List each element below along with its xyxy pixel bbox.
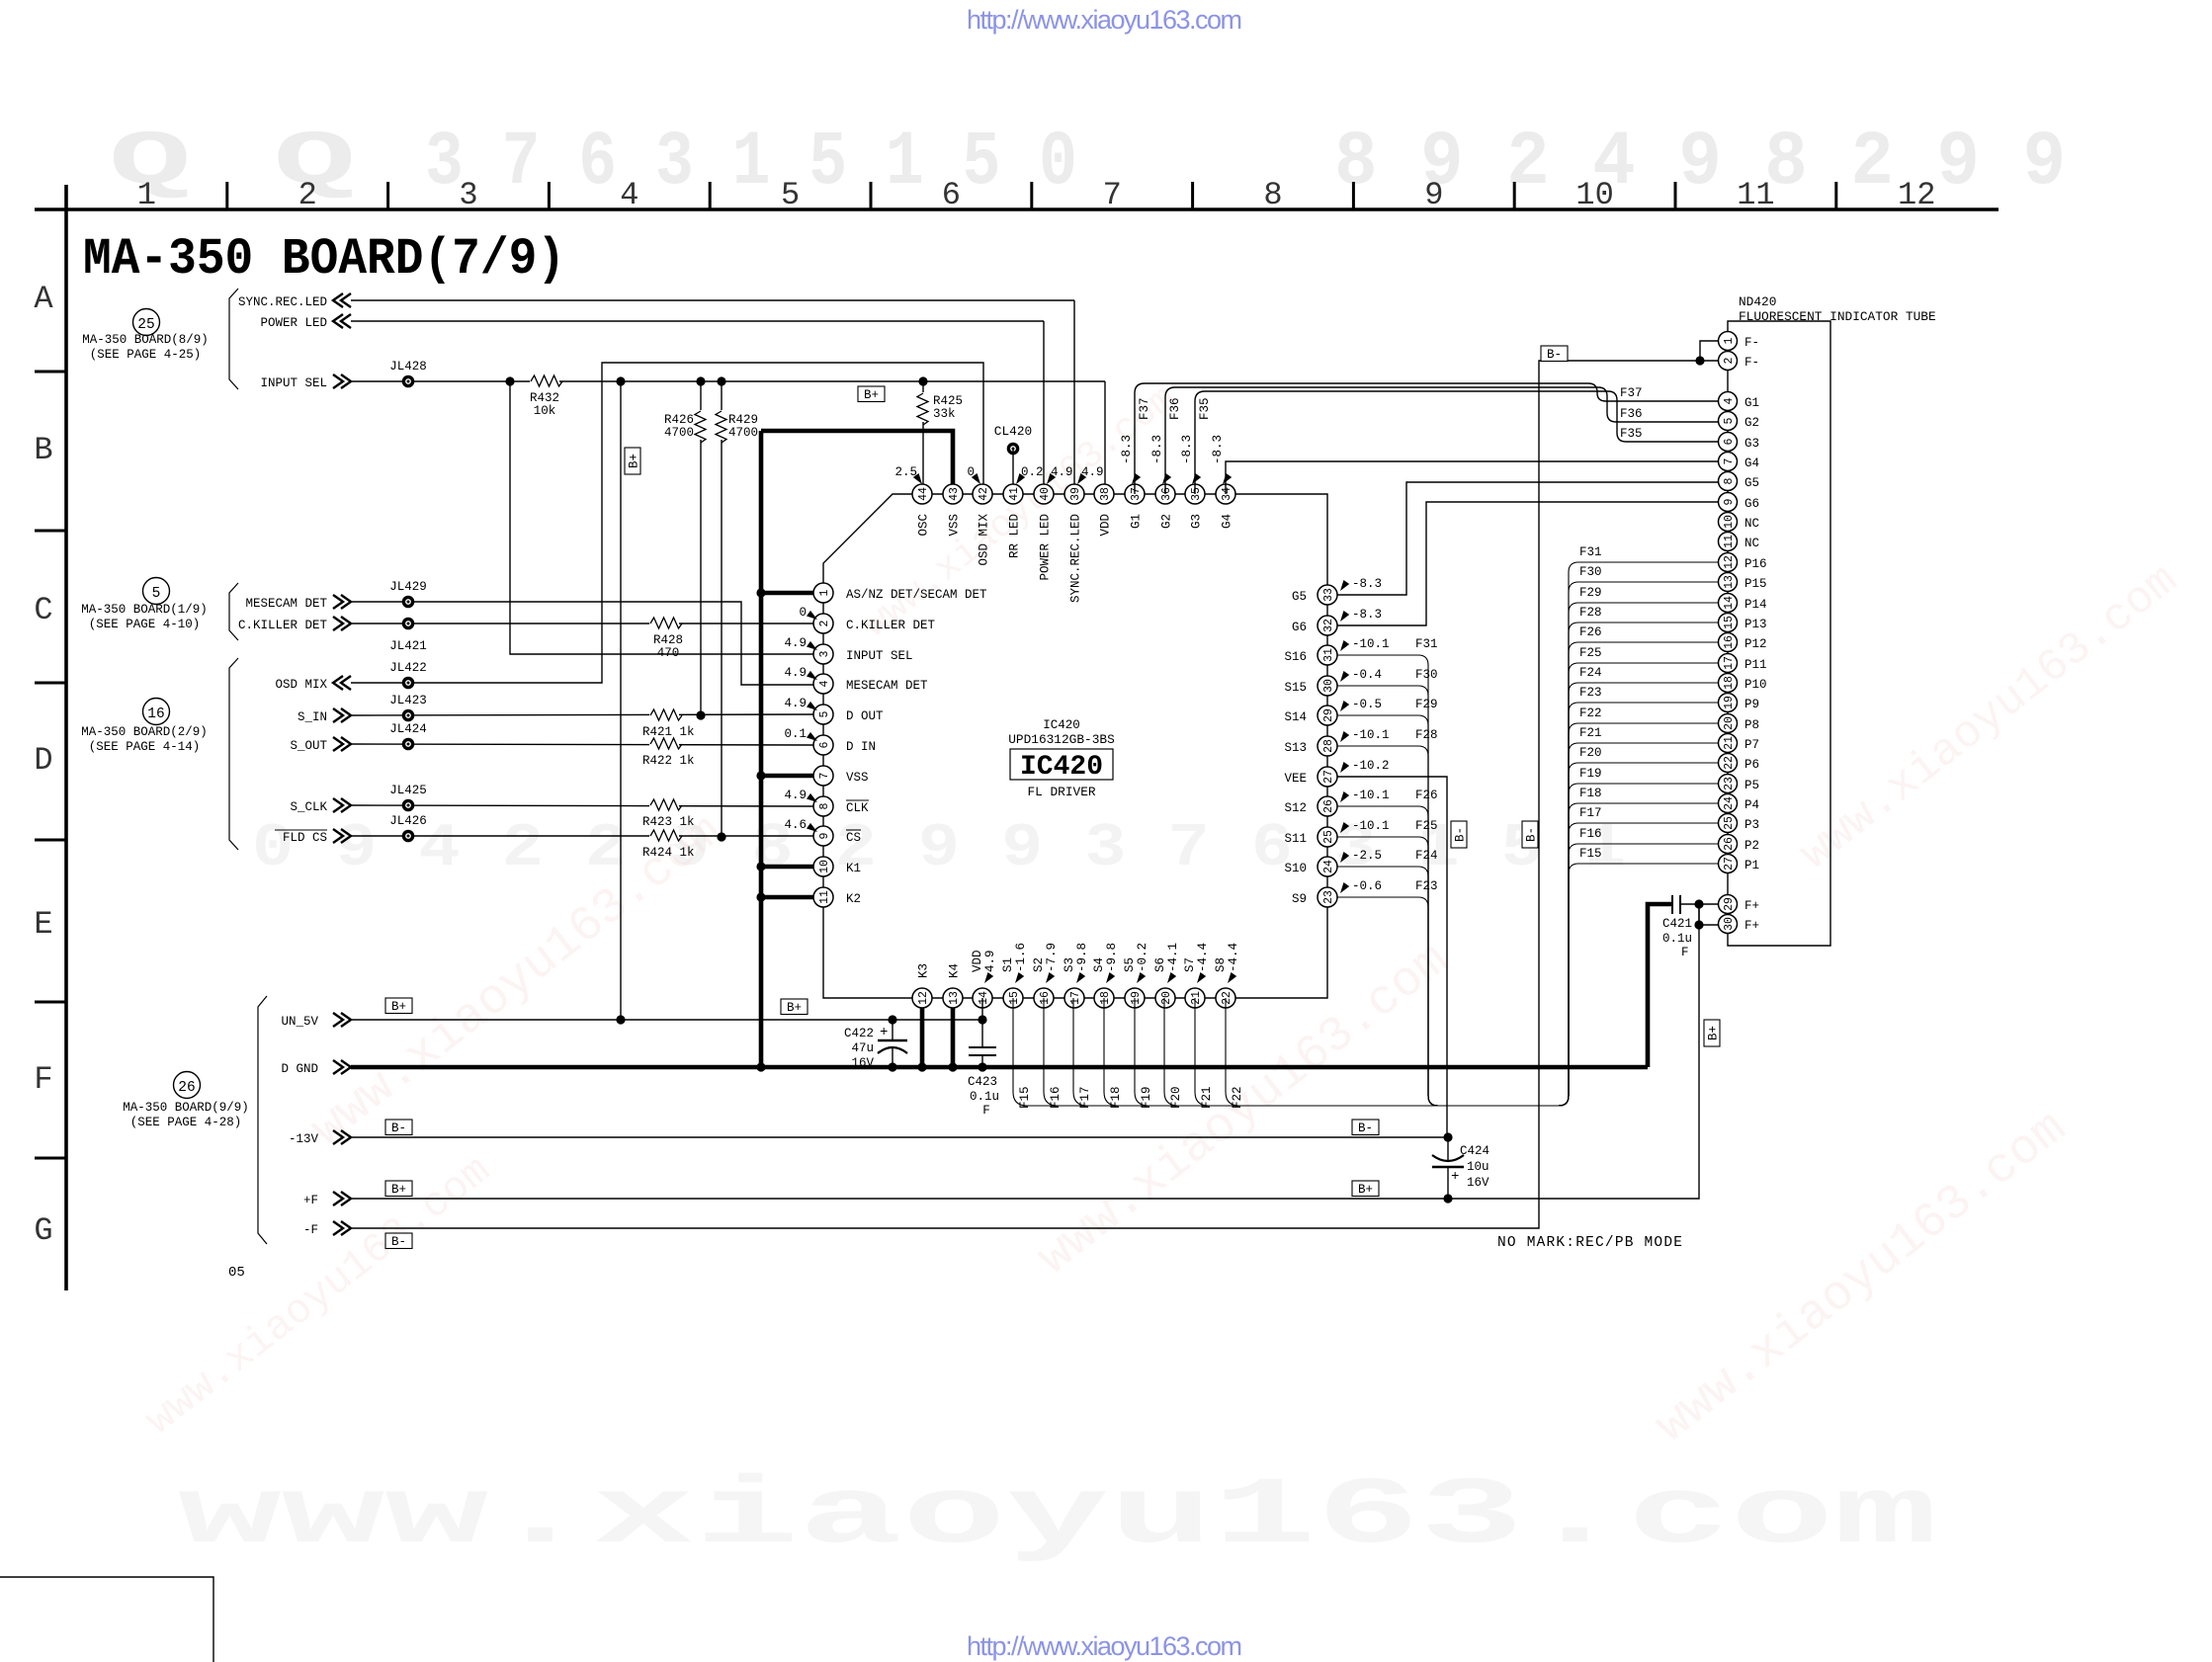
svg-text:S_OUT: S_OUT [290, 739, 327, 753]
svg-text:B+: B+ [391, 1000, 406, 1014]
svg-text:F25: F25 [1579, 646, 1602, 660]
svg-text:F15: F15 [1579, 847, 1602, 861]
svg-text:G2: G2 [1744, 416, 1759, 430]
node SYNC.REC.LED [238, 293, 351, 309]
svg-text:G4: G4 [1221, 514, 1234, 529]
svg-text:ND420: ND420 [1739, 294, 1776, 309]
bracket block 16 [229, 658, 238, 850]
wires F31-F23 from IC right pins to tube [1337, 562, 1719, 1106]
svg-text:S_CLK: S_CLK [290, 800, 327, 814]
svg-text:P16: P16 [1744, 557, 1767, 571]
svg-text:F35: F35 [1198, 397, 1212, 420]
svg-text:B-: B- [391, 1235, 406, 1249]
svg-text:S16: S16 [1284, 650, 1307, 664]
svg-text:18: 18 [1099, 991, 1112, 1005]
voltage 4.9 at pin 40 [1044, 465, 1072, 486]
junction F- node [1695, 356, 1704, 365]
svg-text:41: 41 [1008, 487, 1021, 501]
svg-text:C.KILLER DET: C.KILLER DET [238, 619, 328, 632]
svg-text:-10.1: -10.1 [1352, 728, 1390, 742]
svg-text:FLD CS: FLD CS [283, 831, 327, 845]
svg-text:(SEE PAGE 4-25): (SEE PAGE 4-25) [90, 348, 202, 362]
wire POWER LED [351, 320, 1044, 322]
svg-text:S9: S9 [1292, 892, 1307, 906]
svg-text:8: 8 [818, 802, 831, 809]
junction C423 bottom [978, 1062, 986, 1071]
svg-text:6: 6 [1723, 438, 1736, 445]
svg-text:22: 22 [1723, 756, 1736, 770]
svg-text:(SEE PAGE 4-28): (SEE PAGE 4-28) [130, 1116, 242, 1129]
voltage -8.3 at pin 35 [1180, 435, 1201, 486]
ruler top line [35, 208, 1999, 211]
svg-text:F21: F21 [1200, 1086, 1214, 1109]
svg-text:23: 23 [1723, 777, 1736, 790]
svg-text:VDD: VDD [1099, 514, 1113, 537]
wire R429 to CS line [721, 440, 723, 837]
svg-text:B+: B+ [1707, 1026, 1721, 1040]
wire -13V to C424 [351, 1136, 1448, 1138]
jumper JL429 [389, 580, 427, 608]
svg-text:470: 470 [657, 646, 680, 660]
svg-text:11: 11 [1723, 535, 1736, 548]
svg-text:5: 5 [152, 586, 161, 602]
svg-text:-8.3: -8.3 [1211, 435, 1225, 464]
wire F37 pin37 to tube G1 [1135, 383, 1719, 494]
svg-text:26: 26 [1723, 837, 1736, 851]
svg-text:P9: P9 [1744, 698, 1759, 711]
IC420 left pins 1-11 [813, 583, 833, 907]
svg-text:10: 10 [1575, 177, 1613, 213]
svg-text:NC: NC [1744, 537, 1759, 550]
svg-text:2: 2 [818, 620, 831, 626]
svg-text:JL429: JL429 [389, 580, 427, 594]
svg-text:S7: S7 [1183, 957, 1197, 972]
svg-text:E: E [34, 906, 52, 943]
power B- (-F) [385, 1233, 412, 1249]
wire G4 pin34 to tube G4 [1226, 461, 1719, 494]
svg-text:43: 43 [948, 487, 961, 501]
svg-text:37: 37 [1130, 487, 1143, 501]
svg-text:C: C [34, 592, 52, 628]
wire SYNC.REC.LED [351, 299, 1074, 301]
svg-text:-4.1: -4.1 [1166, 943, 1180, 972]
svg-text:F17: F17 [1579, 806, 1602, 820]
svg-text:4.9: 4.9 [784, 697, 807, 710]
svg-text:25: 25 [137, 317, 154, 333]
svg-text:33: 33 [1322, 588, 1335, 602]
svg-text:24: 24 [1723, 796, 1736, 810]
voltage 2.5 at pin 44 [894, 465, 924, 486]
node INPUT SEL [260, 374, 351, 390]
wire C421 to F+ pins [1680, 903, 1719, 905]
svg-text:-8.3: -8.3 [1120, 435, 1134, 464]
capacitor C423 [968, 1047, 999, 1118]
svg-text:16: 16 [147, 706, 164, 722]
svg-text:F29: F29 [1579, 586, 1602, 600]
power B+ (UN_5V) [385, 998, 412, 1014]
svg-text:40: 40 [1039, 487, 1052, 501]
svg-text:20: 20 [1723, 716, 1736, 730]
svg-text:R432: R432 [530, 391, 559, 405]
svg-text:P6: P6 [1744, 758, 1759, 772]
bracket block 26 [258, 996, 267, 1244]
svg-text:-4.4: -4.4 [1227, 943, 1240, 972]
svg-text:21: 21 [1723, 736, 1736, 750]
junction R426 bottom [696, 710, 705, 719]
node -F [303, 1221, 351, 1237]
IC420 right pins 33-23 [1318, 585, 1337, 907]
svg-text:+: + [880, 1025, 888, 1040]
svg-text:P15: P15 [1744, 577, 1767, 591]
svg-text:P7: P7 [1744, 738, 1759, 752]
svg-text:G: G [34, 1212, 52, 1249]
junction R425 top [918, 376, 927, 385]
svg-text:F23: F23 [1415, 879, 1438, 893]
svg-text:CS: CS [846, 831, 861, 845]
junction VSS pin7 [756, 771, 765, 780]
ND420 pins [1719, 332, 1767, 934]
svg-text:10k: 10k [534, 404, 556, 418]
svg-text:17: 17 [1069, 991, 1082, 1005]
svg-text:14: 14 [1723, 596, 1736, 610]
svg-text:-10.1: -10.1 [1352, 819, 1390, 833]
svg-text:JL424: JL424 [389, 722, 427, 736]
IC420 bottom pin names and voltages [917, 943, 1241, 985]
svg-text:-8.3: -8.3 [1352, 608, 1382, 622]
svg-text:7: 7 [818, 773, 831, 780]
svg-text:MA-350 BOARD(9/9): MA-350 BOARD(9/9) [123, 1101, 249, 1115]
svg-text:http://www.xiaoyu163.com: http://www.xiaoyu163.com [967, 1631, 1242, 1661]
svg-text:6: 6 [818, 741, 831, 748]
svg-text:4: 4 [818, 680, 831, 687]
svg-text:36: 36 [1160, 487, 1173, 501]
svg-text:G1: G1 [1130, 514, 1144, 529]
IC420 top pins 44-34 [912, 484, 1235, 504]
labels F31-F15 near tube [1579, 545, 1602, 861]
svg-text:C.KILLER DET: C.KILLER DET [846, 619, 936, 632]
jumper JL422 [389, 661, 427, 689]
svg-text:F21: F21 [1579, 726, 1602, 740]
wire F- to pin 1 [1700, 341, 1719, 361]
svg-text:44: 44 [917, 487, 930, 501]
svg-text:F-: F- [1744, 356, 1759, 370]
wire R425 to pin 44 OSC [922, 422, 924, 494]
svg-text:S3: S3 [1063, 957, 1076, 972]
junction R429 top [717, 376, 725, 385]
svg-text:-10.1: -10.1 [1352, 789, 1390, 802]
power B- (F- line) [1541, 346, 1568, 362]
jumper JL426 [389, 814, 427, 842]
svg-text:3: 3 [818, 650, 831, 657]
svg-text:-8.3: -8.3 [1352, 577, 1382, 591]
wire -F to F- pins [351, 361, 1719, 1228]
svg-text:-8.3: -8.3 [1150, 435, 1164, 464]
voltage -8.3 at pin 37 [1120, 435, 1141, 486]
wire B+ to R426 top [700, 381, 702, 412]
svg-text:MESECAM DET: MESECAM DET [846, 679, 928, 693]
svg-text:21: 21 [1190, 991, 1203, 1005]
svg-text:F37: F37 [1620, 386, 1643, 400]
svg-text:http://www.xiaoyu163.com: http://www.xiaoyu163.com [967, 5, 1242, 35]
svg-text:S8: S8 [1214, 957, 1228, 972]
svg-text:F22: F22 [1579, 706, 1602, 720]
svg-text:0.1: 0.1 [784, 727, 807, 741]
svg-text:3 7 6 3 1 5 1 5 0: 3 7 6 3 1 5 1 5 0 [425, 120, 1077, 207]
svg-text:G3: G3 [1744, 437, 1759, 451]
svg-text:F20: F20 [1169, 1086, 1183, 1109]
svg-text:+F: +F [303, 1194, 318, 1207]
svg-text:11: 11 [818, 890, 831, 904]
svg-text:POWER LED: POWER LED [1039, 514, 1053, 581]
svg-text:29: 29 [1723, 897, 1736, 911]
svg-text:B+: B+ [391, 1183, 406, 1197]
svg-text:5: 5 [1723, 417, 1736, 424]
svg-text:P3: P3 [1744, 818, 1759, 832]
svg-text:RR LED: RR LED [1008, 514, 1022, 558]
svg-text:15: 15 [1723, 616, 1736, 629]
node C.KILLER DET [238, 617, 351, 632]
power B- (-13V) [385, 1120, 412, 1135]
svg-text:19: 19 [1130, 991, 1143, 1005]
svg-text:35: 35 [1190, 487, 1203, 501]
IC420 top pin names [917, 514, 1234, 604]
svg-text:0: 0 [799, 606, 807, 620]
svg-text:D GND: D GND [281, 1062, 318, 1076]
capacitor C421 [1662, 895, 1692, 959]
power B+ (F+ riser) [1704, 1020, 1720, 1046]
junction F+ pin29 [1694, 899, 1703, 908]
svg-text:G4: G4 [1744, 457, 1759, 470]
resistor R428 [649, 616, 683, 660]
svg-text:-0.2: -0.2 [1136, 943, 1149, 972]
wire K4 pin13 to ground (thick) [951, 998, 956, 1067]
svg-text:F: F [982, 1104, 990, 1118]
svg-text:-4.4: -4.4 [1196, 943, 1210, 972]
svg-text:F: F [34, 1061, 52, 1098]
svg-text:C424: C424 [1460, 1144, 1489, 1158]
svg-text:P14: P14 [1744, 598, 1767, 612]
svg-text:47u: 47u [851, 1041, 874, 1055]
svg-text:12: 12 [917, 991, 930, 1005]
wire G6 pin32 to tube G6 [1337, 502, 1719, 625]
border left line [64, 185, 68, 1290]
svg-text:F37: F37 [1138, 397, 1151, 420]
svg-text:G6: G6 [1292, 621, 1307, 634]
svg-text:16V: 16V [1467, 1176, 1489, 1190]
svg-text:B+: B+ [787, 1001, 802, 1015]
wire VSS bus top (thick) [761, 431, 953, 494]
svg-text:-9.8: -9.8 [1105, 943, 1119, 972]
svg-text:31: 31 [1322, 648, 1335, 662]
svg-text:11: 11 [1737, 177, 1774, 213]
wire F35 pin35 to tube G3 [1195, 391, 1719, 494]
node +F [303, 1192, 351, 1207]
svg-text:2: 2 [1723, 357, 1736, 364]
junction C422 bottom [888, 1062, 896, 1071]
svg-text:F+: F+ [1744, 899, 1759, 913]
svg-text:0.1u: 0.1u [970, 1090, 999, 1104]
jumper JL428 [389, 360, 427, 387]
resistor R422 [642, 736, 695, 768]
svg-text:P10: P10 [1744, 678, 1767, 692]
resistor R423 [642, 797, 695, 829]
svg-text:5: 5 [781, 177, 800, 213]
wire OSD MIX to pin 42 [351, 363, 983, 683]
svg-text:-13V: -13V [289, 1132, 319, 1146]
junction VDD pin14 B+ [978, 1015, 986, 1024]
svg-text:9: 9 [1723, 498, 1736, 505]
svg-text:17: 17 [1723, 656, 1736, 670]
svg-text:F35: F35 [1620, 427, 1643, 441]
junction R429 bottom [717, 832, 725, 841]
junction VSS pin10 [756, 862, 765, 871]
svg-text:F16: F16 [1579, 827, 1602, 841]
svg-text:R429: R429 [728, 413, 758, 427]
power B+ (on rail) [858, 386, 885, 402]
svg-text:10: 10 [1723, 515, 1736, 529]
svg-text:K4: K4 [948, 963, 962, 978]
svg-text:INPUT SEL: INPUT SEL [846, 649, 913, 663]
svg-text:7: 7 [1723, 458, 1736, 465]
svg-text:R425: R425 [933, 394, 963, 408]
junction C424 bottom [1443, 1194, 1452, 1203]
junction C424 top [1443, 1132, 1452, 1141]
svg-text:P11: P11 [1744, 658, 1767, 672]
svg-text:12: 12 [1723, 555, 1736, 569]
svg-text:4.9: 4.9 [784, 666, 807, 680]
svg-text:F36: F36 [1620, 407, 1643, 421]
node UN_5V [281, 1013, 351, 1029]
svg-text:S2: S2 [1032, 957, 1046, 972]
svg-text:-10.1: -10.1 [1352, 637, 1390, 651]
power B- (-F riser) [1522, 821, 1538, 848]
svg-text:9: 9 [1424, 177, 1443, 213]
svg-text:SYNC.REC.LED: SYNC.REC.LED [1069, 514, 1083, 603]
svg-text:20: 20 [1160, 991, 1173, 1005]
node S_IN [298, 708, 351, 724]
junction B+ branch [616, 376, 625, 385]
svg-text:F16: F16 [1049, 1086, 1063, 1109]
svg-text:F31: F31 [1579, 545, 1602, 559]
svg-text:JL425: JL425 [389, 784, 427, 797]
jumper JL425 [389, 784, 427, 811]
svg-text:7: 7 [1103, 177, 1122, 213]
svg-text:9: 9 [818, 832, 831, 839]
svg-text:NO MARK:REC/PB MODE: NO MARK:REC/PB MODE [1497, 1235, 1683, 1251]
wire G5 pin33 to tube G5 [1337, 482, 1719, 595]
voltages at IC420 left pins [784, 606, 819, 835]
svg-text:R424 1k: R424 1k [642, 846, 695, 860]
wire FLD CS to pin 9 [351, 835, 813, 837]
svg-text:S10: S10 [1284, 862, 1307, 875]
svg-text:OSD MIX: OSD MIX [275, 678, 327, 692]
labels F31-F23 at IC right pins [1415, 637, 1438, 893]
svg-text:10: 10 [818, 860, 831, 873]
wires F15-F22 from IC bottom pins to tube [1013, 723, 1719, 1109]
svg-text:-0.4: -0.4 [1352, 668, 1382, 682]
wire VSS to pin 7 (thick) [761, 774, 813, 779]
svg-text:42: 42 [978, 487, 990, 501]
svg-text:VEE: VEE [1284, 772, 1307, 786]
wire SYNC.REC.LED to pin 39 [1073, 300, 1075, 494]
svg-text:16V: 16V [851, 1056, 874, 1070]
svg-text:23: 23 [1322, 890, 1335, 904]
capacitor C424 [1432, 1137, 1489, 1199]
svg-text:D: D [34, 742, 52, 779]
svg-text:K3: K3 [917, 963, 931, 978]
node MESECAM DET [245, 595, 351, 611]
svg-text:24: 24 [1322, 860, 1335, 873]
ruler ticks and numbers [137, 177, 1936, 213]
svg-text:-2.5: -2.5 [1352, 849, 1382, 863]
node POWER LED [260, 314, 351, 330]
jumper JL423 [389, 694, 427, 721]
svg-text:VDD: VDD [971, 950, 984, 972]
svg-text:30: 30 [1723, 917, 1736, 931]
svg-text:33k: 33k [933, 407, 956, 421]
svg-text:OSC: OSC [917, 514, 931, 537]
frame bottom-left box [0, 1577, 213, 1662]
ND420 tube body [1728, 321, 1830, 946]
IC420 center label [1008, 718, 1115, 799]
wire VSS to pin 1 (thick) [761, 591, 813, 596]
svg-text:SYNC.REC.LED: SYNC.REC.LED [238, 295, 327, 309]
voltage 0 at pin 42 [967, 465, 982, 486]
resistor R421 [642, 707, 695, 739]
svg-text:S5: S5 [1123, 957, 1137, 972]
svg-text:4.9: 4.9 [784, 789, 807, 802]
svg-text:G1: G1 [1744, 396, 1759, 410]
resistor R424 [642, 828, 695, 860]
wire VSS bus left (thick) [759, 431, 764, 1067]
svg-text:4700: 4700 [728, 426, 758, 440]
svg-text:K2: K2 [846, 892, 861, 906]
svg-text:P8: P8 [1744, 718, 1759, 732]
svg-text:26: 26 [178, 1080, 195, 1096]
wire C.KILLER DET to pin 2 [351, 623, 813, 624]
svg-text:F19: F19 [1140, 1086, 1153, 1109]
svg-text:1: 1 [137, 177, 156, 213]
svg-text:-9.8: -9.8 [1075, 943, 1089, 972]
svg-text:F26: F26 [1415, 789, 1438, 802]
svg-text:B-: B- [1547, 348, 1562, 362]
svg-text:3: 3 [459, 177, 477, 213]
svg-text:32: 32 [1322, 619, 1335, 632]
svg-text:F25: F25 [1415, 819, 1438, 833]
svg-text:12: 12 [1898, 177, 1935, 213]
wire R426 to D OUT line [700, 440, 702, 715]
svg-text:28: 28 [1322, 739, 1335, 753]
svg-text:16: 16 [1039, 991, 1052, 1005]
svg-text:MA-350 BOARD(2/9): MA-350 BOARD(2/9) [81, 725, 208, 739]
border left ticks and letters [34, 281, 66, 1249]
svg-text:4.9: 4.9 [983, 950, 997, 972]
svg-text:-8.3: -8.3 [1180, 435, 1194, 464]
junction K4 ground [948, 1062, 957, 1071]
svg-text:B-: B- [1454, 827, 1468, 842]
svg-text:F15: F15 [1018, 1086, 1032, 1109]
wire pin14 to C423 [981, 998, 983, 1047]
svg-text:-0.5: -0.5 [1352, 698, 1382, 711]
svg-text:F-: F- [1744, 336, 1759, 350]
svg-text:MA-350 BOARD(8/9): MA-350 BOARD(8/9) [82, 333, 209, 347]
svg-text:R422 1k: R422 1k [642, 754, 695, 768]
svg-text:F30: F30 [1579, 565, 1602, 579]
svg-text:+: + [1451, 1169, 1459, 1185]
svg-text:F36: F36 [1168, 397, 1182, 420]
svg-text:27: 27 [1723, 857, 1736, 871]
svg-text:CLK: CLK [846, 801, 869, 815]
